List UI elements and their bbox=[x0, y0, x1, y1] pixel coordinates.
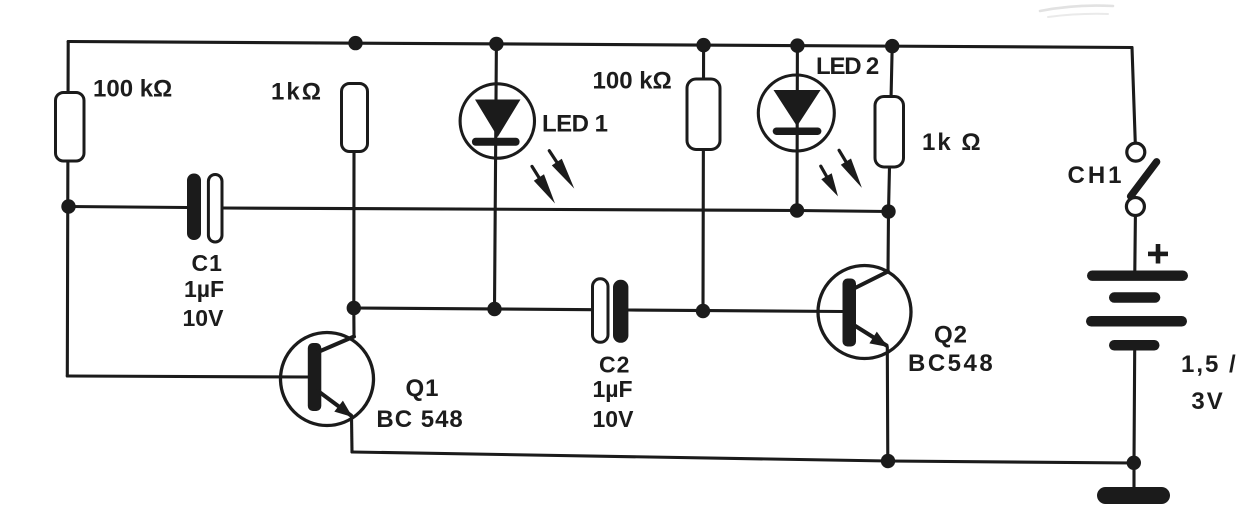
wire R4 vertical bbox=[889, 46, 893, 211]
svg-text:C2: C2 bbox=[599, 352, 630, 378]
wire Q2 emitter vertical bbox=[886, 347, 890, 461]
switch CH1 lever bbox=[1131, 162, 1157, 197]
svg-text:CH1: CH1 bbox=[1068, 162, 1125, 189]
wire Q2 collector vertical bbox=[886, 212, 890, 272]
transistor Q2 collector stroke bbox=[854, 272, 888, 289]
LED1 light arrow left bbox=[532, 166, 541, 180]
svg-text:BC548: BC548 bbox=[908, 350, 995, 377]
transistor Q1 circle bbox=[281, 333, 374, 426]
wire R2 to Q1 collector vertical bbox=[352, 151, 355, 337]
svg-text:1k Ω: 1k Ω bbox=[922, 129, 983, 156]
wire R3 vertical bbox=[701, 45, 705, 311]
wire top supply rail bbox=[68, 42, 1132, 48]
switch CH1 lower contact bbox=[1126, 198, 1144, 216]
LED2 diode triangle bbox=[774, 90, 821, 126]
svg-text:100 kΩ: 100 kΩ bbox=[593, 68, 672, 95]
transistor Q2 emitter stroke bbox=[853, 325, 887, 346]
LED2 circle bbox=[758, 75, 834, 151]
wire LED1 vertical bbox=[495, 44, 497, 309]
transistor Q2 circle bbox=[818, 266, 911, 359]
node Q1 collector / rail3 bbox=[347, 301, 361, 315]
transistor Q1 base bar bbox=[308, 343, 322, 411]
node LED2 bottom bbox=[790, 203, 804, 217]
svg-text:LED 2: LED 2 bbox=[816, 53, 879, 80]
battery cell bar 1 (long) bbox=[1087, 271, 1188, 281]
LED1 cathode bar bbox=[472, 138, 520, 146]
resistor R3 100k body bbox=[687, 79, 720, 150]
wire stub to ground symbol bbox=[1132, 463, 1135, 488]
LED1 diode triangle bbox=[475, 100, 521, 138]
node top rail / R3 bbox=[696, 38, 710, 52]
battery cell bar 2 (short) bbox=[1109, 292, 1160, 303]
LED1 circle bbox=[460, 84, 534, 158]
transistor Q2 emitter arrowhead bbox=[869, 332, 888, 347]
node top rail / LED2 bbox=[790, 38, 804, 52]
wire switch to battery positive bbox=[1133, 216, 1137, 272]
wire right drop from rail to switch CH1 bbox=[1132, 48, 1135, 144]
node top rail / R4 bbox=[885, 39, 899, 53]
svg-text:1µF: 1µF bbox=[184, 276, 224, 302]
capacitor C1 right plate (outline) bbox=[208, 175, 222, 243]
battery plus sign bbox=[1148, 252, 1168, 257]
transistor Q1 emitter stroke bbox=[318, 391, 351, 416]
transistor Q1 collector stroke bbox=[318, 337, 354, 353]
node Q2 emitter / bottom rail bbox=[881, 454, 895, 468]
resistor R4 1k body bbox=[875, 97, 904, 168]
wire Q1 base lead bbox=[67, 376, 308, 377]
svg-text:1kΩ: 1kΩ bbox=[271, 79, 323, 106]
LED1 light arrow right bbox=[549, 151, 558, 164]
svg-text:LED 1: LED 1 bbox=[542, 111, 608, 138]
capacitor C2 right plate (filled) bbox=[613, 280, 628, 343]
transistor Q1 emitter arrowhead bbox=[334, 401, 352, 417]
ground symbol bbox=[1097, 487, 1170, 504]
svg-text:BC 548: BC 548 bbox=[376, 406, 463, 433]
svg-text:10V: 10V bbox=[593, 406, 635, 432]
wire Q1 emitter vertical bbox=[350, 416, 354, 452]
svg-text:10V: 10V bbox=[183, 305, 225, 331]
node R3 bottom / rail3 bbox=[696, 304, 710, 318]
transistor Q2 base bar bbox=[843, 279, 857, 347]
svg-text:Q1: Q1 bbox=[406, 375, 440, 402]
node top rail / R2 bbox=[348, 36, 362, 50]
node battery minus / bottom rail bbox=[1127, 456, 1141, 470]
LED2 cathode bar bbox=[773, 128, 822, 136]
wire C1 right plate to LED2/R4 bottom rail bbox=[222, 208, 889, 212]
svg-text:1,5 /: 1,5 / bbox=[1181, 351, 1238, 378]
capacitor C1 left plate (filled) bbox=[187, 174, 201, 241]
node R1 bottom / C1 bbox=[61, 199, 75, 213]
svg-text:100 kΩ: 100 kΩ bbox=[93, 76, 172, 103]
node R4 bottom / Q2 collector bbox=[881, 204, 895, 218]
wire battery negative down to bottom rail bbox=[1132, 350, 1136, 462]
node LED1 bottom / rail3 bbox=[487, 302, 501, 316]
wire node rail to C1 left plate bbox=[69, 207, 188, 208]
scan smudge top right (faint) bbox=[1040, 6, 1113, 11]
wire rail3 left segment to C2 bbox=[354, 308, 593, 310]
wire LED2 vertical bbox=[795, 46, 799, 211]
switch CH1 upper contact bbox=[1127, 143, 1145, 161]
svg-text:3V: 3V bbox=[1191, 388, 1224, 415]
svg-text:Q2: Q2 bbox=[934, 322, 968, 349]
resistor R1 100k body bbox=[56, 93, 85, 162]
node top rail / LED1 bbox=[489, 37, 503, 51]
svg-text:1µF: 1µF bbox=[593, 376, 633, 402]
LED2 light arrow left bbox=[821, 166, 828, 178]
capacitor C2 left plate (outline) bbox=[593, 279, 609, 343]
wire rail3 right segment C2 to Q2 base bbox=[629, 310, 843, 312]
battery cell bar 4 (short) bbox=[1109, 340, 1160, 351]
LED2 light arrow right bbox=[839, 150, 847, 163]
wire bottom ground rail bbox=[352, 452, 1134, 463]
wire left vertical through R1 bbox=[66, 42, 70, 377]
svg-text:C1: C1 bbox=[192, 250, 223, 276]
resistor R2 1k body bbox=[342, 84, 368, 152]
battery cell bar 3 (long) bbox=[1086, 316, 1187, 327]
